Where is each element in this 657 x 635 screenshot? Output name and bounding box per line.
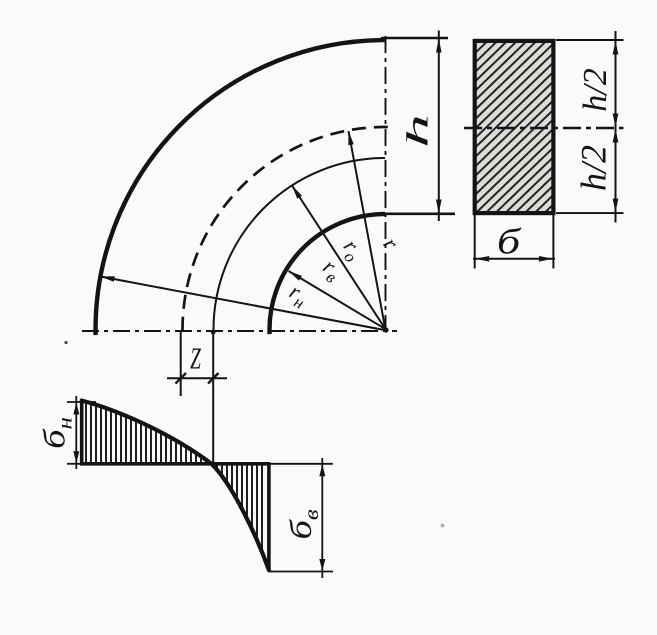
sigma_n bottom extension	[67, 463, 82, 465]
vertical dash-dot centerline	[385, 36, 387, 330]
h dim bottom extension	[385, 213, 455, 216]
h dim line	[438, 31, 440, 222]
inner arc of curved bar	[270, 214, 385, 334]
h/2 top extension	[556, 39, 624, 41]
dashed centroid arc	[182, 127, 387, 331]
cross-section rectangle (hatched)	[475, 41, 554, 213]
b dim line	[473, 258, 555, 260]
stress diagram right edge	[267, 464, 271, 572]
svg-text:h/2: h/2	[577, 68, 614, 111]
svg-text:h/2: h/2	[574, 145, 614, 191]
hatch lines sigma_n lobe	[86, 403, 206, 463]
radius line r_o to neutral arc	[292, 186, 386, 331]
horizontal dash-dot axis	[82, 330, 397, 332]
radius line r_v to inner arc	[289, 271, 388, 330]
h/2 dim line	[615, 31, 617, 223]
h/2 bottom extension	[556, 212, 624, 214]
section mid centerline	[464, 127, 624, 129]
svg-text:h: h	[401, 114, 435, 148]
z / neutral axis extension line down to stress diagram	[212, 330, 214, 464]
radius line r to dashed arc	[349, 131, 386, 330]
z slash tick left	[176, 373, 187, 384]
stress curve	[82, 401, 269, 571]
sigma_n top extension	[67, 401, 96, 403]
hatch lines sigma_v lobe	[217, 465, 262, 551]
center junction	[383, 327, 388, 332]
svg-text:б: б	[497, 222, 522, 262]
faint scan speck	[441, 524, 445, 528]
junction dot on axis	[211, 330, 216, 335]
thin neutral-layer arc	[213, 158, 385, 331]
sigma_n dim line	[75, 396, 77, 469]
outer arc of curved bar	[96, 40, 385, 335]
b left extension	[474, 215, 476, 269]
svg-text:Z: Z	[190, 341, 201, 376]
z extension line from dashed arc end	[180, 330, 182, 396]
b right extension	[552, 215, 554, 269]
radius line r_n to outer arc	[101, 277, 388, 331]
z slash tick right	[208, 373, 219, 384]
sigma_v dim line	[321, 458, 323, 578]
baseline thin extension right	[268, 463, 333, 465]
bottom extension right	[268, 571, 333, 573]
h dim top extension	[381, 37, 448, 39]
stress diagram baseline	[80, 462, 271, 466]
small scan speck near outer arc end	[64, 341, 67, 344]
stress diagram left edge	[80, 401, 84, 464]
z dim line	[167, 377, 227, 379]
